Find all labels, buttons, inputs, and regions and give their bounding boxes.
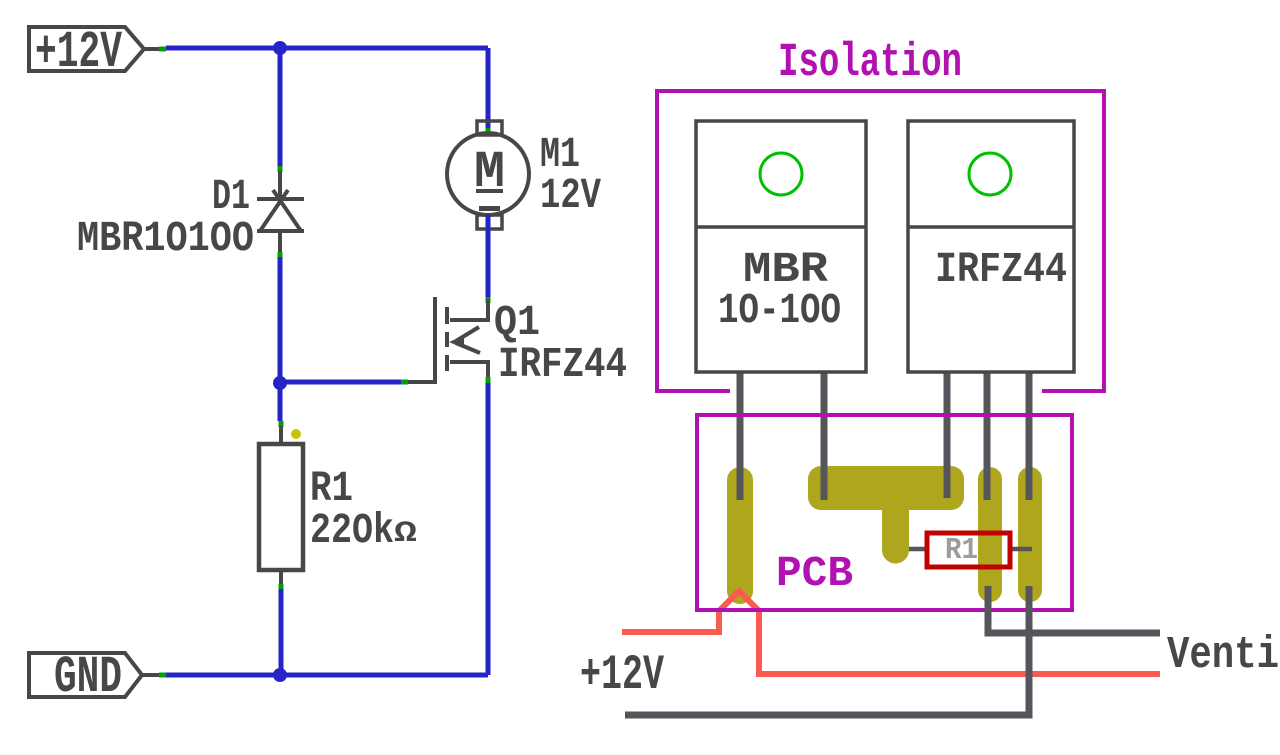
wire D1 bottom to junction <box>278 257 283 383</box>
package MBR outline <box>696 121 866 372</box>
trace T shape (olive) <box>808 466 964 564</box>
wire junction to R1 top <box>278 383 283 421</box>
wire +12V red <box>622 591 1160 674</box>
lead MBR pin2 <box>821 372 828 500</box>
power flag +12V <box>29 23 159 82</box>
wire Q1 source down <box>486 383 491 675</box>
wire +12V horizontal top <box>166 46 488 51</box>
hole IRFZ44 (green circle) <box>969 153 1011 195</box>
svg-text:M: M <box>474 143 505 202</box>
pin tip green Q1 source <box>486 377 491 383</box>
svg-text:Isolation: Isolation <box>778 37 962 90</box>
svg-text:IRFZ44: IRFZ44 <box>935 245 1067 294</box>
wire GND rail <box>166 673 488 678</box>
lead IRFZ44 pin1 <box>944 372 951 498</box>
svg-text:+12V: +12V <box>35 23 123 82</box>
svg-text:PCB: PCB <box>776 549 853 598</box>
svg-text:1O-1OO: 1O-1OO <box>718 286 841 335</box>
motor M1 <box>447 121 529 229</box>
pin tip green D1 top <box>278 166 283 172</box>
wire R1 bottom to GND rail <box>279 589 284 675</box>
svg-text:12V: 12V <box>540 171 601 220</box>
pin tip green R1 bottom <box>279 584 284 590</box>
isolation box <box>657 91 1104 391</box>
junction GND rail <box>273 668 287 682</box>
wire gate horizontal <box>280 380 401 385</box>
resistor R1 pcb stubs <box>909 547 927 552</box>
pin tip green motor top <box>486 128 491 134</box>
pad left (olive) <box>727 467 753 604</box>
hole MBR (green circle) <box>760 153 802 195</box>
diode D1 <box>257 171 304 252</box>
svg-text:GND: GND <box>54 648 122 707</box>
ground flag GND <box>29 648 159 707</box>
wire D1 top <box>278 48 283 166</box>
transistor Q1 <box>408 297 488 382</box>
pcb box <box>697 415 1072 610</box>
svg-text:MBR1O1OO: MBR1O1OO <box>77 214 254 263</box>
package IRFZ44 outline <box>908 121 1074 372</box>
svg-text:IRFZ44: IRFZ44 <box>498 340 627 389</box>
arrowhead Q1 body arrow <box>449 336 464 349</box>
svg-text:R1: R1 <box>945 533 978 568</box>
pin tip green D1 bottom <box>278 252 283 258</box>
lead IRFZ44 pin2 <box>984 372 991 500</box>
pin tip green Q1 drain <box>486 297 491 303</box>
wire pad B down-left <box>625 586 1029 715</box>
pin tip green +12V <box>159 47 166 52</box>
wire motor to Q1 drain <box>486 215 491 297</box>
pin tip green gate <box>401 380 408 385</box>
pad A (olive) <box>978 467 1002 602</box>
resistor R1 <box>259 426 303 589</box>
wire motor drop top <box>486 48 491 134</box>
lead MBR pin1 <box>737 372 744 500</box>
pin tip green R1 top <box>279 421 284 427</box>
junction at +12V / D1 <box>273 41 287 55</box>
wire pad A to Venti <box>988 586 1160 633</box>
pad B (olive) <box>1018 467 1042 602</box>
svg-text:22Ok: 22Ok <box>310 506 394 555</box>
lead IRFZ44 pin3 <box>1026 372 1033 500</box>
pin tip green motor bottom <box>486 215 491 221</box>
svg-text:+12V: +12V <box>580 647 664 703</box>
resistor R1 pcb white fill <box>927 533 1010 567</box>
origin dot R1 <box>291 429 301 439</box>
svg-text:Ω: Ω <box>394 517 417 551</box>
resistor R1 pcb outline <box>927 533 1010 567</box>
junction at gate node <box>273 376 287 390</box>
pin tip green GND <box>159 673 166 678</box>
svg-text:Venti: Venti <box>1167 630 1279 681</box>
